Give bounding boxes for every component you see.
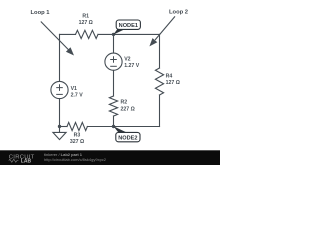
- wire bottom-left segment: [60, 126, 68, 128]
- svg-text:NODE2: NODE2: [118, 135, 137, 141]
- wire top-left horizontal segment: [60, 33, 76, 35]
- node NODE2: [114, 126, 141, 141]
- ground: [53, 127, 66, 140]
- node NODE1: [113, 20, 140, 35]
- voltage source V2: [105, 53, 122, 70]
- label R2: [121, 100, 135, 113]
- wire left vertical lower segment: [59, 99, 61, 127]
- resistor R1: [76, 30, 99, 38]
- svg-text:127 Ω: 127 Ω: [79, 20, 93, 26]
- junction dot at NODE1: [112, 33, 115, 36]
- watermark text: [44, 152, 107, 162]
- svg-text:R2: R2: [121, 100, 128, 106]
- label V2: [124, 56, 140, 69]
- voltage source V1: [51, 81, 68, 98]
- junction dot at ground: [58, 125, 61, 128]
- watermark bar: [0, 150, 220, 165]
- wire bottom-middle segment: [87, 126, 113, 128]
- label R3: [70, 133, 84, 146]
- wire top-right horizontal segment: [98, 33, 160, 35]
- svg-text:R4: R4: [166, 73, 173, 79]
- wire middle vertical upper segment: [113, 34, 115, 53]
- label V1: [71, 86, 84, 99]
- label R1: [79, 13, 93, 26]
- svg-text:1.27 V: 1.27 V: [124, 63, 140, 69]
- svg-text:327 Ω: 327 Ω: [70, 139, 84, 145]
- svg-text:LAB: LAB: [21, 159, 32, 165]
- annotation Loop 1: [31, 10, 75, 56]
- wire right vertical upper segment: [159, 34, 161, 68]
- svg-text:http://circuitlab.com/c/8sk4gy: http://circuitlab.com/c/8sk4gy9xpc2: [44, 157, 107, 162]
- wire middle vertical lower segment: [113, 116, 115, 127]
- svg-text:V1: V1: [71, 86, 77, 92]
- annotation Loop 2: [149, 10, 188, 47]
- svg-text:227 Ω: 227 Ω: [121, 106, 135, 112]
- resistor R3: [67, 122, 87, 130]
- svg-text:R1: R1: [82, 13, 89, 19]
- resistor R4: [155, 68, 163, 95]
- wire middle vertical mid segment: [113, 70, 115, 96]
- svg-text:2.7 V: 2.7 V: [71, 93, 84, 99]
- svg-text:V2: V2: [124, 56, 130, 62]
- junction dot at NODE2: [112, 125, 115, 128]
- svg-text:Loop 2: Loop 2: [169, 10, 188, 16]
- label R4: [166, 73, 180, 86]
- svg-text:NODE1: NODE1: [119, 23, 138, 29]
- wire bottom-right segment: [114, 126, 160, 128]
- wire right vertical lower segment: [159, 95, 161, 127]
- svg-text:Loop 1: Loop 1: [31, 10, 51, 16]
- watermark CircuitLab logo: [9, 154, 35, 164]
- resistor R2: [109, 96, 117, 116]
- svg-text:127 Ω: 127 Ω: [166, 80, 180, 86]
- svg-text:R3: R3: [74, 133, 81, 139]
- wire left vertical upper segment: [59, 34, 61, 81]
